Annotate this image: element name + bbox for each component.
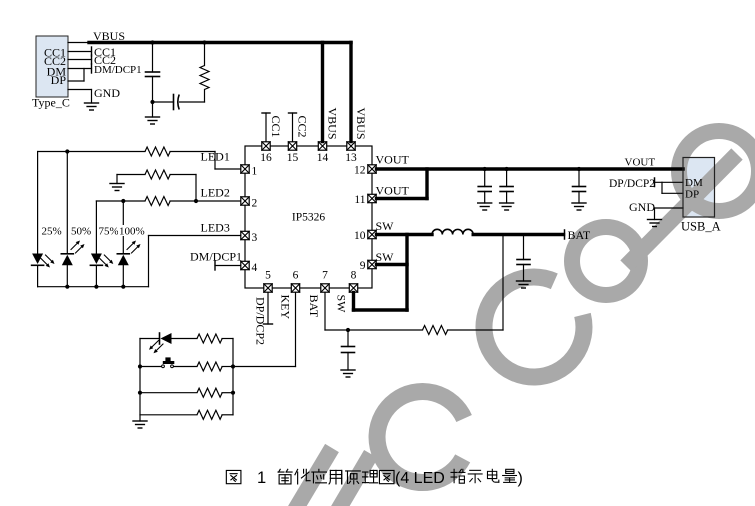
LED D5 flashlight <box>140 333 197 353</box>
svg-text:10: 10 <box>354 230 366 242</box>
svg-text:VBUS: VBUS <box>326 108 340 140</box>
svg-text:SW: SW <box>376 219 395 233</box>
svg-text:4: 4 <box>252 262 258 274</box>
svg-text:1: 1 <box>252 166 258 178</box>
svg-text:DM/DCP1: DM/DCP1 <box>94 64 142 76</box>
svg-text:DM: DM <box>685 177 703 189</box>
svg-text:16: 16 <box>260 152 272 164</box>
pin 3 U1 <box>241 231 258 244</box>
wire CC1 stub <box>68 47 92 56</box>
svg-text:50%: 50% <box>71 226 91 238</box>
svg-text:DP/DCP2: DP/DCP2 <box>609 178 655 190</box>
resistor R-row D <box>197 410 233 419</box>
svg-text:3: 3 <box>252 232 258 244</box>
junction rail-100% <box>121 285 125 289</box>
wire C1 to C2 <box>153 101 174 103</box>
pin 14 U1 <box>317 142 329 164</box>
svg-text:SW: SW <box>376 250 395 264</box>
pin label KEY <box>279 295 293 320</box>
wire SW pin8 (thick) <box>354 293 408 311</box>
svg-text:2: 2 <box>252 198 258 210</box>
net label CC1 <box>94 45 116 59</box>
svg-text:BAT: BAT <box>568 228 591 242</box>
capacitor C-VOUT 3 <box>573 169 586 203</box>
wire right rail <box>232 339 234 415</box>
svg-text:15: 15 <box>287 152 299 164</box>
svg-text:8: 8 <box>351 270 357 282</box>
junction VOUT C4 <box>505 167 509 171</box>
junction BAT cap <box>346 328 350 332</box>
wire 75% column <box>95 201 97 254</box>
junction VBUS-R1 <box>202 40 206 44</box>
ground USB GND <box>648 220 662 227</box>
ground C-VOUT 2 <box>500 203 514 210</box>
LED D4 100% <box>117 241 140 287</box>
pin label SW <box>335 295 349 314</box>
watermark Injoinic Corp (decor letters) <box>295 131 755 506</box>
svg-text:7: 7 <box>322 270 328 282</box>
capacitor C-BAT pin7 <box>342 330 355 370</box>
svg-text:DP/DCP2: DP/DCP2 <box>254 297 268 345</box>
value label 75% <box>98 225 119 238</box>
wire GND USB <box>655 208 684 220</box>
pin 8 U1 <box>349 270 357 293</box>
net label DM/DCP1 <box>94 64 142 76</box>
wire DM/DCP1 stub <box>68 64 92 73</box>
svg-text:SW: SW <box>335 295 349 314</box>
net label LED3 <box>201 221 230 235</box>
ground C1 <box>146 117 160 124</box>
pin 6 U1 <box>291 270 299 293</box>
resistor R-LED3 <box>145 197 170 206</box>
svg-text:13: 13 <box>345 152 357 164</box>
svg-text:6: 6 <box>293 270 299 282</box>
value label 100% <box>118 225 145 238</box>
switch KEY button <box>140 357 197 367</box>
wire LED bottom rail <box>38 286 149 288</box>
inductor L1 <box>432 229 473 234</box>
terminal BAT <box>564 230 566 239</box>
wire SW vertical (thick) <box>405 235 408 311</box>
LED D3 75% <box>90 254 113 287</box>
svg-text:BAT: BAT <box>307 295 321 318</box>
svg-text:GND: GND <box>94 86 120 100</box>
wire C2 to R1 <box>180 101 205 103</box>
terminal DP/DCP2 <box>654 178 656 187</box>
junction LED2 row-R2 <box>194 199 198 203</box>
svg-text:DM/DCP1: DM/DCP1 <box>190 250 242 264</box>
junction VBUS-C1 <box>150 40 154 44</box>
junction right rail row B <box>231 364 235 368</box>
pin 1 U1 <box>241 165 258 178</box>
wire GND stub <box>68 90 92 104</box>
ground left rail <box>133 421 147 428</box>
ground Type_C GND <box>85 103 99 110</box>
wire VOUT pin12 (thick) <box>377 167 684 170</box>
svg-text:CC1: CC1 <box>269 116 283 138</box>
svg-text:GND: GND <box>629 200 655 214</box>
svg-text:USB_A: USB_A <box>681 220 721 234</box>
svg-text:DP: DP <box>51 73 67 87</box>
svg-text:VOUT: VOUT <box>625 157 656 169</box>
net label GND <box>94 86 120 100</box>
wire 100% column <box>122 201 124 254</box>
connector USB_A <box>681 158 721 234</box>
wire row D <box>140 414 197 416</box>
wire pin16 CC1 stub <box>262 113 270 142</box>
wire pin5 DP/DCP2 stub <box>264 293 273 325</box>
capacitor C-BAT out <box>517 236 530 281</box>
pin 13 U1 <box>345 142 357 164</box>
wire BAT to R-BAT <box>502 236 504 330</box>
connector USB_A body fill <box>683 158 715 218</box>
net label SW pin10 <box>376 219 395 233</box>
wire LED2 row <box>96 200 240 202</box>
wire KEY to pin6 <box>233 293 296 367</box>
net label VOUT at USB <box>625 157 656 169</box>
pin 12 U1 <box>354 165 376 177</box>
value label 25% <box>41 225 62 238</box>
resistor R-LED2 <box>145 170 170 179</box>
capacitor C1 <box>146 44 160 117</box>
pin 11 U1 <box>354 194 376 206</box>
pin label BAT <box>307 295 321 318</box>
wire pin14 VBUS (thick) <box>321 43 324 142</box>
capacitor C2 <box>174 95 180 110</box>
svg-text:VBUS: VBUS <box>93 29 125 43</box>
wire LED3 row <box>149 236 241 287</box>
junction C1-C2 node <box>150 100 154 104</box>
wire pin15 CC2 stub <box>289 113 297 142</box>
wire row C <box>140 392 197 394</box>
junction right rail row C <box>231 391 235 395</box>
wire R-LED2 gnd arm <box>117 175 145 184</box>
svg-text:VBUS: VBUS <box>354 108 368 140</box>
resistor R1 <box>200 44 209 102</box>
resistor R-LED1 <box>145 147 170 156</box>
junction VOUT C5 <box>577 167 581 171</box>
junction rail-75% <box>94 285 98 289</box>
junction left rail row C <box>138 391 142 395</box>
caption 图1 简化应用原理图(4 LED 指示电量) <box>226 469 522 487</box>
pin 4 U1 <box>241 261 258 274</box>
svg-text:Type_C: Type_C <box>32 96 70 110</box>
svg-text:9: 9 <box>360 260 366 272</box>
wire VOUT pin11 (thick) <box>377 169 428 199</box>
svg-text:11: 11 <box>354 194 365 206</box>
pin 2 U1 <box>241 197 258 210</box>
pin 7 U1 <box>321 270 329 293</box>
pin 5 U1 <box>264 270 272 293</box>
svg-text:LED2: LED2 <box>201 186 230 200</box>
svg-text:5: 5 <box>265 270 271 282</box>
LED D1 25% <box>32 254 55 287</box>
pin label CC1 <box>269 116 283 138</box>
net label LED2 <box>201 186 230 200</box>
net label BAT <box>568 228 591 242</box>
svg-text:LED3: LED3 <box>201 221 230 235</box>
svg-text:25%: 25% <box>42 226 62 238</box>
wire pin7 BAT <box>325 293 503 331</box>
svg-text:14: 14 <box>317 152 329 164</box>
svg-text:(4 LED: (4 LED <box>395 470 445 487</box>
ground R-LED2 <box>110 184 124 191</box>
wire VBUS bus (thick) <box>89 41 351 44</box>
net label LED1 <box>201 150 230 164</box>
resistor R-BAT <box>423 326 448 335</box>
svg-text:CC2: CC2 <box>296 116 310 138</box>
ground C-VOUT 1 <box>478 203 492 210</box>
wire CC2 stub <box>68 55 92 64</box>
value label 50% <box>70 225 91 238</box>
svg-text:DP: DP <box>685 189 699 201</box>
wire pin13 VBUS (thick) <box>349 43 352 142</box>
IC U1 IP5326 body <box>245 146 372 288</box>
LED D2 50% <box>61 241 84 287</box>
svg-text:IP5326: IP5326 <box>292 212 325 224</box>
capacitor C-VOUT 1 <box>478 169 491 203</box>
net label DP/DCP2 <box>609 178 655 190</box>
net label VOUT pin12 <box>376 153 410 167</box>
capacitor C-VOUT 2 <box>500 169 513 203</box>
wire BAT out (thick) <box>473 233 563 236</box>
junction left rail row B <box>138 364 142 368</box>
resistor R-row A <box>197 334 233 343</box>
junction LED1-50% <box>65 149 69 153</box>
svg-text:12: 12 <box>354 165 366 177</box>
junction LED2 row-100% <box>121 199 125 203</box>
wire SW pin10 (thick) <box>377 233 433 236</box>
wire VBUS from Type_C <box>68 42 90 44</box>
ground C-BAT pin7 <box>341 370 355 377</box>
wire 25% column <box>37 152 39 254</box>
svg-text:KEY: KEY <box>279 295 293 320</box>
resistor R-row C <box>197 388 233 397</box>
net label DM/DCP1 <box>190 250 242 264</box>
wire left rail <box>139 339 141 422</box>
pin label VBUS <box>354 108 368 140</box>
resistor R-row B <box>197 362 233 371</box>
wire DP jog to DM/DCP1 <box>68 69 84 82</box>
svg-text:LED1: LED1 <box>201 150 230 164</box>
wire SW pin9 (thick) <box>377 263 408 266</box>
wire R-LED2 to LED2 row <box>170 175 196 202</box>
junction VOUT C3 <box>483 167 487 171</box>
pin 9 U1 <box>360 260 376 272</box>
svg-text:75%: 75% <box>99 226 119 238</box>
pin label CC2 <box>296 116 310 138</box>
ground C-VOUT 3 <box>572 203 586 210</box>
net label GND USB <box>629 200 655 214</box>
wire pin4 DM/DCP1 stub <box>215 261 241 270</box>
pin label VBUS <box>326 108 340 140</box>
svg-text:1: 1 <box>257 469 266 487</box>
pin 10 U1 <box>354 230 376 242</box>
junction rail-50% <box>65 285 69 289</box>
pin label DP/DCP2 <box>254 297 268 345</box>
net label SW pin9 <box>376 250 395 264</box>
connector Type_C <box>32 36 70 110</box>
wire 50% column <box>66 152 68 254</box>
wire DP/DCP2 to DP <box>662 182 683 193</box>
net label CC2 <box>94 53 116 67</box>
wire LED1 row <box>38 152 241 170</box>
ground C-BAT out <box>517 281 531 288</box>
svg-text:): ) <box>518 470 523 487</box>
svg-text:100%: 100% <box>119 226 145 238</box>
pin 16 U1 <box>260 142 272 164</box>
svg-text:VOUT: VOUT <box>376 183 410 197</box>
svg-text:VOUT: VOUT <box>376 153 410 167</box>
wire DP/DCP2 to DM <box>655 181 684 183</box>
net label VOUT pin11 <box>376 183 410 197</box>
net label VBUS <box>93 29 125 43</box>
pin 15 U1 <box>287 142 299 164</box>
